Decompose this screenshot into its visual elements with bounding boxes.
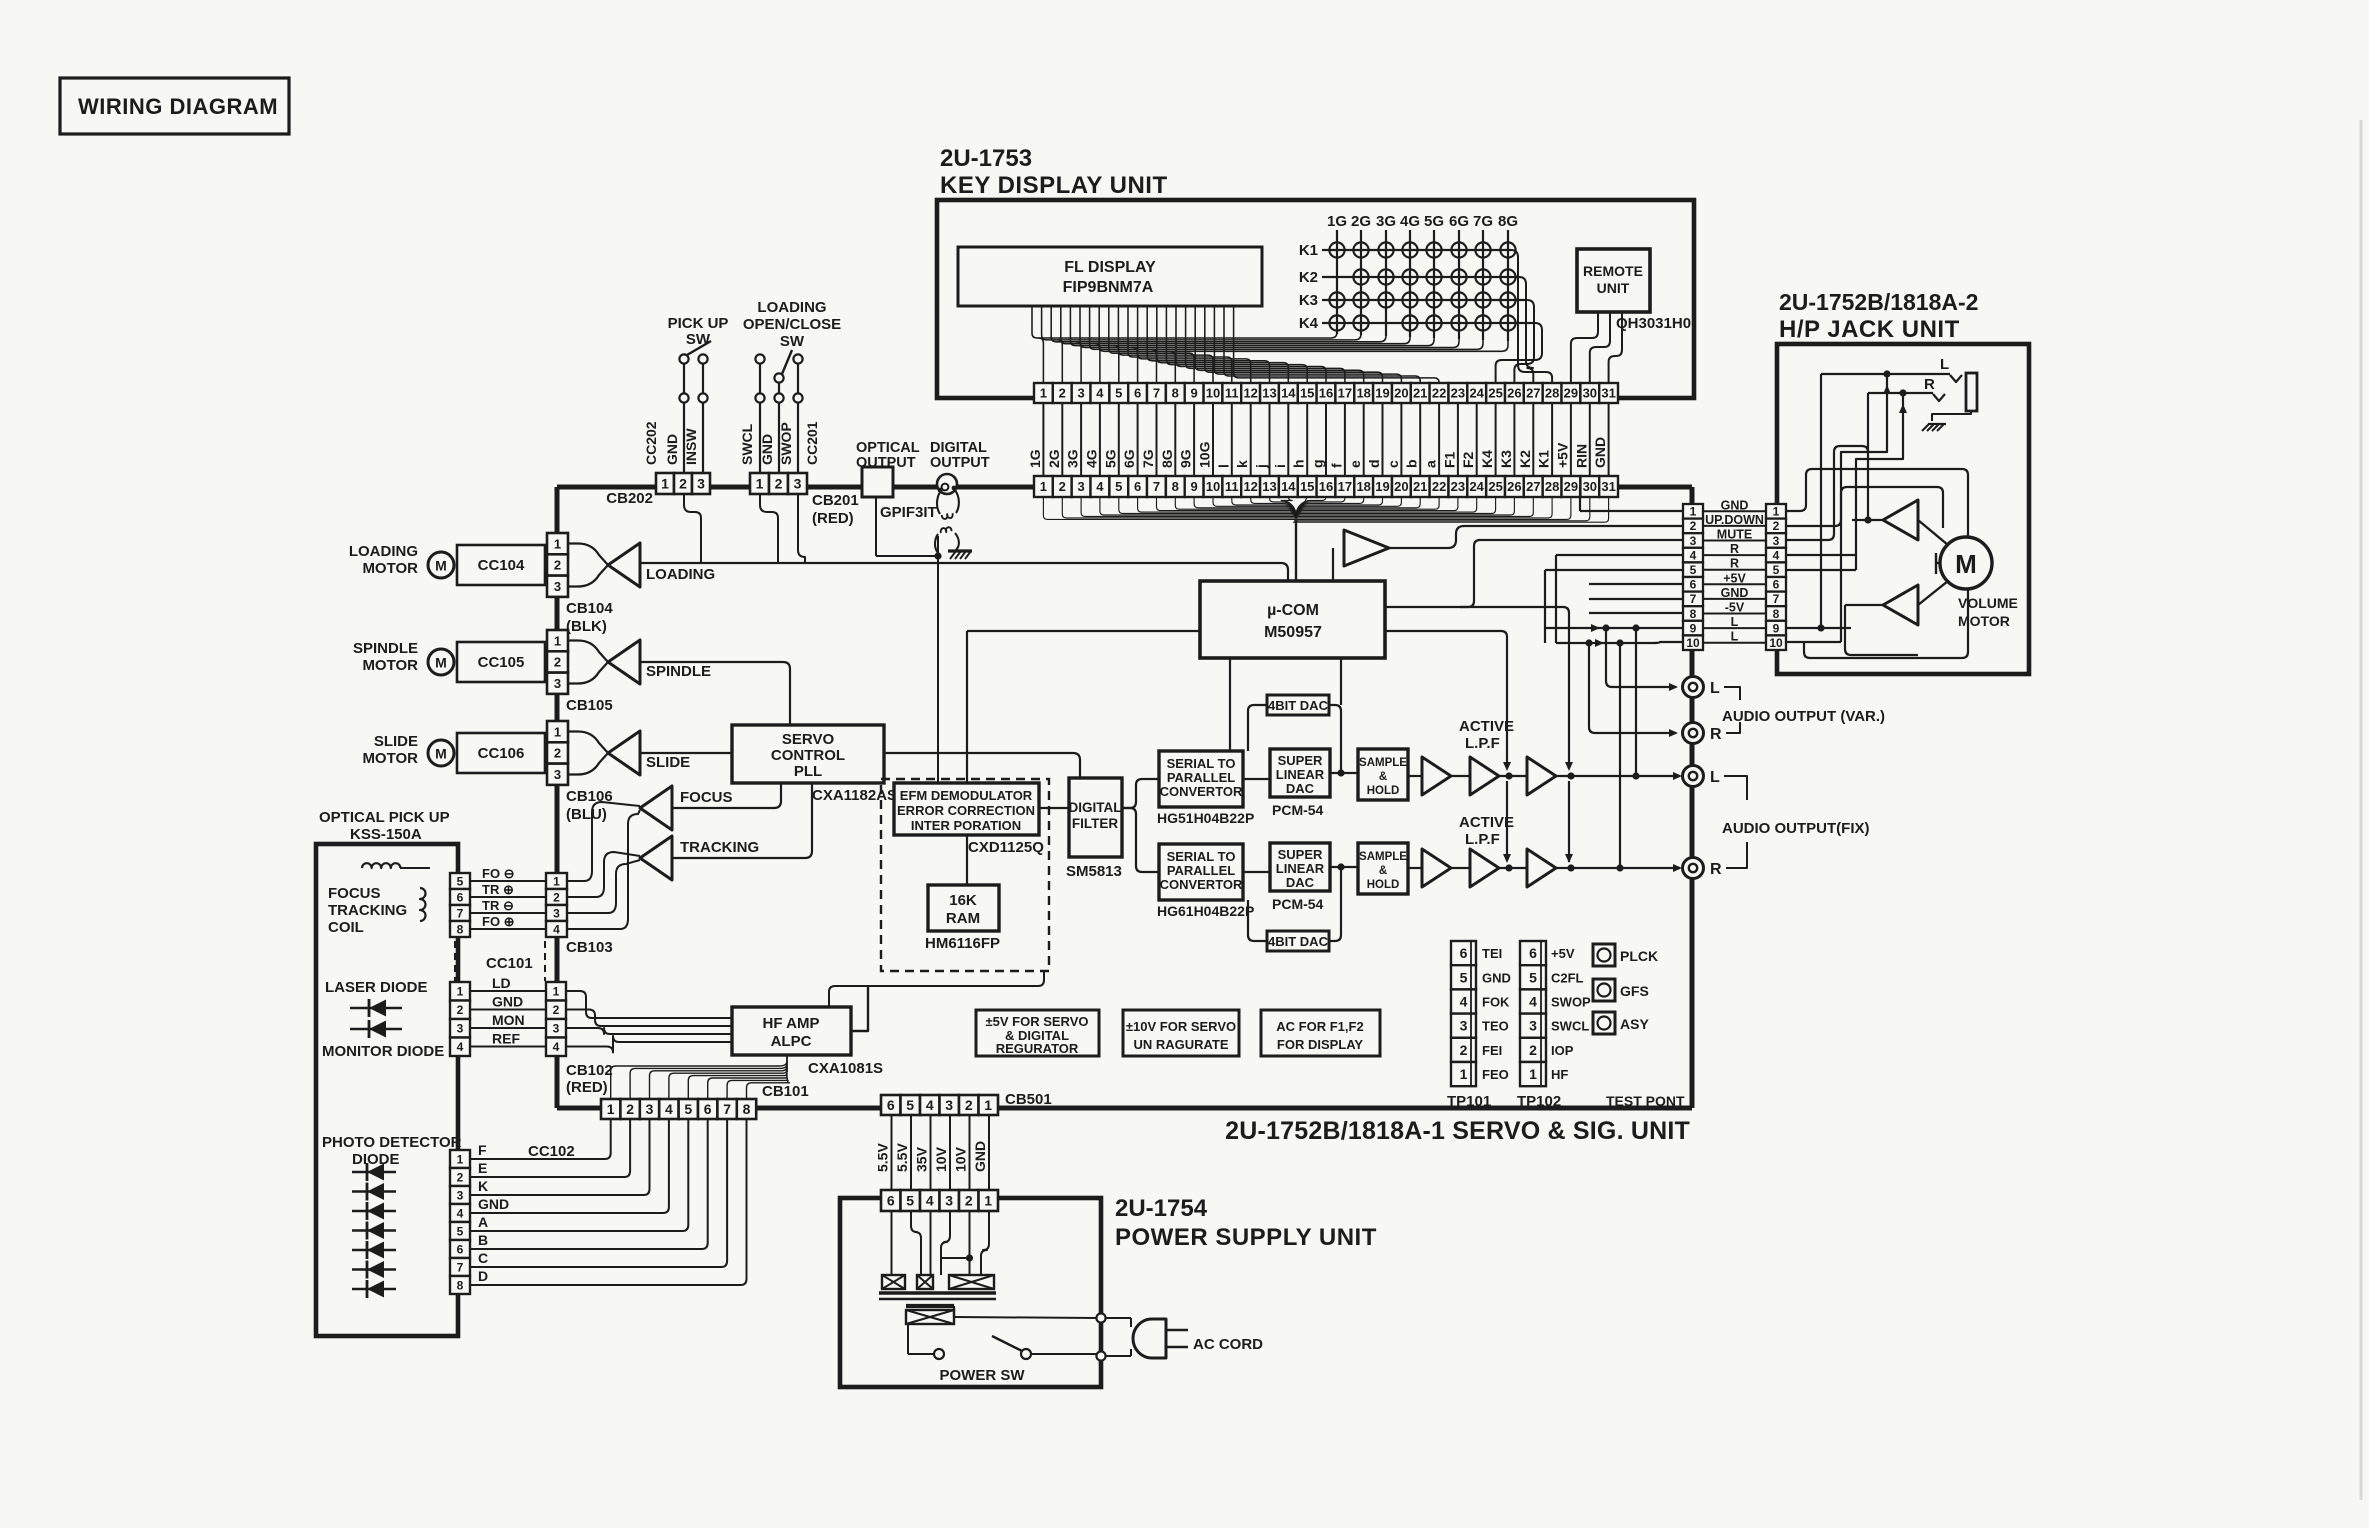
svg-text:(RED): (RED) (566, 1079, 608, 1096)
svg-text:7: 7 (457, 906, 464, 920)
svg-text:M50957: M50957 (1264, 624, 1322, 641)
svg-text:8G: 8G (1498, 213, 1518, 230)
svg-text:(BLK): (BLK) (566, 618, 607, 635)
svg-text:±10V FOR SERVO: ±10V FOR SERVO (1126, 1019, 1236, 1034)
svg-text:KSS-150A: KSS-150A (350, 826, 422, 843)
wires CB102 to HF amp (566, 991, 732, 1018)
svg-text:7: 7 (1153, 386, 1160, 401)
wires u-COM bottom to dac chain (1229, 658, 1231, 751)
flex cable CC104 (457, 545, 545, 585)
svg-text:7G: 7G (1473, 213, 1493, 230)
svg-text:30: 30 (1583, 479, 1597, 494)
svg-text:M: M (1955, 549, 1977, 579)
svg-text:+5V: +5V (1551, 946, 1575, 961)
svg-text:GND: GND (1721, 498, 1749, 512)
svg-text:3: 3 (1460, 1018, 1468, 1034)
headphone ground symbol (1922, 424, 1929, 431)
optical digital ground wires (875, 497, 877, 556)
svg-text:ACTIVE: ACTIVE (1459, 814, 1514, 831)
16K RAM box HM6116FP (928, 885, 999, 931)
svg-text:31: 31 (1601, 479, 1615, 494)
svg-text:H/P JACK UNIT: H/P JACK UNIT (1779, 316, 1960, 343)
wire L audio to hp pin9 (1545, 627, 1683, 629)
HF amp ALPC box CXA1081S (732, 1007, 851, 1055)
svg-text:L: L (1710, 680, 1720, 697)
svg-text:UN RAGURATE: UN RAGURATE (1133, 1037, 1228, 1052)
connector CB104 (547, 533, 568, 554)
svg-text:SW: SW (780, 333, 805, 350)
svg-text:9: 9 (1773, 621, 1780, 635)
svg-text:GND: GND (478, 1196, 509, 1212)
svg-text:R: R (1730, 542, 1739, 556)
svg-text:M: M (435, 746, 447, 762)
photo detector connector pins 1-8 (450, 1150, 470, 1168)
svg-text:PLL: PLL (794, 763, 822, 780)
hp wire R to apex (1867, 393, 1869, 520)
svg-text:5: 5 (1690, 563, 1697, 577)
wire hp pin5 R (1545, 569, 1683, 571)
svg-text:K4: K4 (1299, 315, 1319, 332)
svg-text:1: 1 (661, 476, 669, 492)
connector CB105 (547, 630, 568, 651)
svg-text:6: 6 (1134, 386, 1141, 401)
svg-text:1: 1 (607, 1101, 615, 1117)
svg-text:3: 3 (794, 476, 802, 492)
svg-text:UNIT: UNIT (1597, 280, 1630, 296)
wire L fix to pin line (1635, 628, 1637, 776)
svg-text:14: 14 (1281, 386, 1296, 401)
svg-text:22: 22 (1432, 479, 1446, 494)
svg-text:CB202: CB202 (606, 490, 653, 507)
svg-text:4: 4 (1529, 994, 1537, 1010)
svg-text:WIRING DIAGRAM: WIRING DIAGRAM (78, 94, 278, 119)
loading open/close switch contacts (755, 393, 764, 402)
svg-text:K2: K2 (1299, 269, 1318, 286)
wires linking row1 to row2 (1042, 403, 1044, 476)
svg-text:ERROR CORRECTION: ERROR CORRECTION (897, 803, 1035, 818)
svg-text:LOADING: LOADING (757, 299, 826, 316)
svg-text:HF AMP: HF AMP (763, 1015, 820, 1032)
svg-text:SWOP: SWOP (1551, 995, 1591, 1010)
transformer ground (948, 549, 972, 552)
hp amp outputs to motor (1918, 520, 1948, 545)
svg-text:TP101: TP101 (1447, 1093, 1491, 1110)
svg-text:21: 21 (1413, 479, 1427, 494)
svg-text:3: 3 (646, 1101, 654, 1117)
hp motor bottom loop (1804, 589, 1968, 658)
svg-text:SLIDE: SLIDE (374, 733, 418, 750)
svg-text:FO ⊕: FO ⊕ (482, 914, 515, 929)
svg-text:21: 21 (1413, 386, 1427, 401)
svg-text:3: 3 (553, 906, 560, 920)
svg-text:L: L (1731, 630, 1739, 644)
wire serial to dac top (1243, 778, 1270, 780)
svg-text:D: D (478, 1268, 488, 1284)
test point ASY (1593, 1012, 1615, 1034)
hp L feed staircase (1841, 374, 1887, 642)
svg-text:GND: GND (1721, 586, 1749, 600)
hp amp feed wires (1787, 487, 1943, 526)
wire loading amp to u-COM (640, 563, 1288, 581)
svg-text:TR ⊖: TR ⊖ (482, 898, 514, 913)
svg-text:KEY DISPLAY UNIT: KEY DISPLAY UNIT (940, 172, 1168, 199)
svg-text:c: c (1385, 460, 1401, 468)
node power junction (966, 1254, 973, 1261)
svg-text:PLCK: PLCK (1620, 948, 1658, 964)
audio output jacks (1683, 677, 1704, 698)
svg-text:HG51H04B22P: HG51H04B22P (1157, 810, 1254, 826)
svg-text:3: 3 (554, 676, 561, 691)
svg-text:IOP: IOP (1551, 1043, 1574, 1058)
svg-text:8: 8 (1690, 607, 1697, 621)
servo control PLL box CXA1182AS (732, 725, 884, 783)
svg-text:24: 24 (1469, 479, 1484, 494)
svg-text:SERVO: SERVO (782, 731, 835, 748)
hp connector left pins 1-10 (1683, 504, 1703, 519)
key display connector row 1 pins 1-31 (1034, 383, 1053, 403)
transformer windings (882, 1275, 905, 1289)
svg-text:4: 4 (926, 1097, 934, 1113)
svg-text:a: a (1423, 460, 1439, 468)
wire ground to EFM (937, 556, 939, 783)
svg-text:CC202: CC202 (643, 421, 659, 465)
svg-text:2G: 2G (1351, 213, 1371, 230)
note box 10V for servo (1123, 1010, 1239, 1056)
wires below CB202 CB201 to loading line (684, 494, 701, 563)
svg-text:DIGITAL: DIGITAL (1069, 800, 1122, 815)
svg-text:ALPC: ALPC (771, 1033, 812, 1050)
svg-text:1: 1 (984, 1193, 992, 1209)
power switch (934, 1349, 944, 1359)
test point TP101 (1451, 941, 1476, 965)
svg-text:SUPER: SUPER (1278, 847, 1323, 862)
wire EFM to RAM (966, 835, 968, 885)
wire 4bit dac top to dac line (1329, 705, 1341, 773)
wire dac to sample hold top (1330, 772, 1358, 774)
svg-text:29: 29 (1564, 479, 1578, 494)
svg-text:6: 6 (1690, 578, 1697, 592)
4bit dac top box (1267, 695, 1329, 715)
svg-text:4: 4 (1460, 994, 1468, 1010)
svg-text:FOCUS: FOCUS (680, 789, 733, 806)
svg-text:1G: 1G (1327, 213, 1347, 230)
wire serial top to 4bit dac (1248, 705, 1267, 751)
svg-text:SAMPLE: SAMPLE (1359, 851, 1407, 863)
svg-text:13: 13 (1262, 479, 1276, 494)
svg-text:LINEAR: LINEAR (1276, 861, 1325, 876)
svg-text:3: 3 (945, 1193, 953, 1209)
hp volume amp bottom (1883, 585, 1918, 625)
svg-text:22: 22 (1432, 386, 1446, 401)
wire HF amp top to EFM region (829, 971, 1044, 1007)
svg-text:CB501: CB501 (1005, 1091, 1052, 1108)
svg-text:SWCL: SWCL (739, 423, 755, 465)
svg-text:i: i (1272, 464, 1288, 468)
svg-text:20: 20 (1394, 479, 1408, 494)
key row wires K1-K4 to pins 25-28 (1511, 250, 1552, 383)
svg-text:4G: 4G (1083, 449, 1099, 468)
key switch circles (1329, 242, 1344, 257)
svg-text:(RED): (RED) (812, 510, 854, 527)
svg-text:20: 20 (1394, 386, 1408, 401)
svg-text:3: 3 (1077, 479, 1084, 494)
svg-text:4: 4 (553, 922, 560, 936)
svg-text:AC FOR F1,F2: AC FOR F1,F2 (1276, 1019, 1363, 1034)
svg-text:HF: HF (1551, 1067, 1568, 1082)
servo & sig unit right edge wire (1690, 487, 1695, 1108)
svg-text:1: 1 (1040, 386, 1047, 401)
svg-text:MOTOR: MOTOR (362, 657, 418, 674)
svg-text:MOTOR: MOTOR (1958, 613, 2010, 629)
svg-text:27: 27 (1526, 479, 1540, 494)
audio chain bottom amplifiers (1408, 867, 1422, 869)
svg-text:DAC: DAC (1286, 875, 1315, 890)
transformer primary (906, 1304, 954, 1308)
wire serial bottom to 4bit dac (1248, 900, 1267, 941)
svg-text:35V: 35V (914, 1146, 930, 1172)
svg-text:2: 2 (554, 558, 561, 573)
svg-text:GND: GND (1592, 437, 1608, 468)
power supply connector (881, 1190, 901, 1211)
digital output transformer primary (937, 492, 940, 514)
svg-text:E: E (478, 1160, 487, 1176)
svg-text:25: 25 (1488, 386, 1502, 401)
wires digital filter to serial converters (1122, 779, 1159, 808)
svg-text:ASY: ASY (1620, 1016, 1649, 1032)
headphone jack ground wire (1932, 411, 1971, 421)
svg-text:COIL: COIL (328, 919, 364, 936)
loading open/close switch blade (782, 350, 792, 374)
svg-text:1: 1 (1040, 479, 1047, 494)
svg-text:4: 4 (553, 1040, 560, 1054)
svg-text:CONVERTOR: CONVERTOR (1160, 877, 1243, 892)
svg-text:d: d (1366, 459, 1382, 468)
svg-text:3: 3 (1077, 386, 1084, 401)
photo detector wires F E K GND A B C D to CB101 (470, 1119, 611, 1159)
svg-text:PARALLEL: PARALLEL (1167, 770, 1235, 785)
svg-text:13: 13 (1262, 386, 1276, 401)
svg-text:2: 2 (457, 1170, 464, 1184)
svg-text:LASER DIODE: LASER DIODE (325, 979, 428, 996)
svg-text:K3: K3 (1299, 292, 1318, 309)
svg-text:UP.DOWN: UP.DOWN (1705, 513, 1764, 527)
EFM demodulator box (894, 783, 1039, 835)
svg-text:4G: 4G (1400, 213, 1420, 230)
svg-text:+5V: +5V (1554, 442, 1570, 468)
hp jack unit box (1777, 344, 2029, 674)
svg-text:&: & (1379, 865, 1387, 877)
svg-text:DIODE: DIODE (352, 1151, 400, 1168)
svg-text:19: 19 (1375, 386, 1389, 401)
svg-text:2: 2 (554, 655, 561, 670)
svg-text:OPEN/CLOSE: OPEN/CLOSE (743, 316, 841, 333)
flex cable CC106 (457, 733, 545, 773)
key matrix column wires (1336, 230, 1338, 334)
svg-text:FOK: FOK (1482, 995, 1510, 1010)
svg-text:OPTICAL PICK UP: OPTICAL PICK UP (319, 809, 450, 826)
svg-text:6: 6 (457, 890, 464, 904)
svg-text:7G: 7G (1140, 449, 1156, 468)
svg-text:INSW: INSW (683, 428, 699, 465)
svg-text:SERIAL TO: SERIAL TO (1167, 756, 1236, 771)
connector CB106 (547, 721, 568, 742)
svg-text:6: 6 (1134, 479, 1141, 494)
svg-text:5: 5 (906, 1097, 914, 1113)
svg-text:OUTPUT: OUTPUT (930, 455, 990, 471)
loading open/close switch wires (759, 403, 761, 473)
wire spindle amp to servo pll (640, 662, 790, 725)
svg-text:CB104: CB104 (566, 600, 613, 617)
svg-text:CC102: CC102 (528, 1143, 575, 1160)
svg-text:b: b (1404, 459, 1420, 468)
svg-text:2: 2 (1773, 519, 1780, 533)
svg-text:8: 8 (1773, 607, 1780, 621)
svg-text:TRACKING: TRACKING (328, 902, 407, 919)
svg-text:6: 6 (704, 1101, 712, 1117)
svg-text:1: 1 (984, 1097, 992, 1113)
pick up switch wires (683, 393, 685, 403)
svg-text:B: B (478, 1232, 488, 1248)
svg-text:VOLUME: VOLUME (1958, 595, 2018, 611)
connector CB201 (750, 473, 769, 494)
svg-text:18: 18 (1356, 386, 1370, 401)
svg-text:7: 7 (1690, 592, 1697, 606)
connector row 2 pins 1-31 on servo unit (1034, 476, 1053, 497)
svg-text:10V: 10V (953, 1146, 969, 1172)
pick up switch blade (687, 341, 711, 355)
svg-text:3G: 3G (1065, 449, 1081, 468)
svg-text:M: M (435, 558, 447, 574)
svg-text:10: 10 (1206, 479, 1220, 494)
svg-text:TRACKING: TRACKING (680, 839, 759, 856)
servo & sig unit left edge wire (555, 487, 560, 1108)
svg-text:CB103: CB103 (566, 939, 613, 956)
headphone jack chevrons (1950, 375, 1962, 382)
svg-text:R: R (1710, 861, 1722, 878)
volume motor M (1940, 537, 1992, 589)
svg-text:CB101: CB101 (762, 1083, 809, 1100)
note box 5V for servo (976, 1010, 1099, 1056)
hp mute wire pin3 (1787, 446, 1868, 540)
svg-text:5: 5 (1115, 386, 1122, 401)
svg-text:PARALLEL: PARALLEL (1167, 863, 1235, 878)
svg-text:1: 1 (1690, 505, 1697, 519)
svg-text:1: 1 (554, 633, 561, 648)
wire L var tap (1606, 628, 1676, 687)
svg-text:(BLU): (BLU) (566, 806, 607, 823)
amplifier SLIDE (608, 731, 640, 775)
svg-text:2: 2 (553, 890, 560, 904)
svg-text:CB102: CB102 (566, 1062, 613, 1079)
title box WIRING DIAGRAM (60, 78, 289, 134)
svg-text:GND: GND (759, 434, 775, 465)
wires CB103 to focus tracking amps (568, 802, 640, 881)
svg-text:EFM DEMODULATOR: EFM DEMODULATOR (900, 788, 1033, 803)
svg-text:FILTER: FILTER (1072, 816, 1118, 831)
connector CB101 (601, 1099, 620, 1119)
svg-text:6: 6 (887, 1193, 895, 1209)
svg-text:9: 9 (1190, 386, 1197, 401)
transformer core (879, 1291, 996, 1294)
audio output fix bracket (1724, 776, 1747, 800)
digital output transformer secondary (935, 534, 938, 556)
svg-text:1: 1 (554, 724, 561, 739)
svg-text:4: 4 (665, 1101, 673, 1117)
svg-text:SAMPLE: SAMPLE (1359, 757, 1407, 769)
svg-text:2: 2 (1059, 479, 1066, 494)
key display unit box 2U-1753 (937, 200, 1694, 398)
svg-text:3: 3 (554, 579, 561, 594)
ac junction circles (1096, 1313, 1105, 1322)
svg-text:TEI: TEI (1482, 946, 1502, 961)
mute wire A from u-COM (1385, 607, 1569, 766)
svg-text:5: 5 (1115, 479, 1122, 494)
svg-text:K1: K1 (1536, 450, 1552, 468)
bundle wire to u-COM (1295, 519, 1297, 581)
svg-text:R: R (1924, 376, 1935, 393)
svg-text:25: 25 (1488, 479, 1502, 494)
svg-text:CC105: CC105 (478, 654, 525, 671)
connector CB102 (546, 982, 566, 1001)
svg-text:SM5813: SM5813 (1066, 863, 1122, 880)
svg-text:2: 2 (679, 476, 687, 492)
svg-text:REMOTE: REMOTE (1583, 263, 1643, 279)
svg-text:3G: 3G (1376, 213, 1396, 230)
svg-text:k: k (1234, 460, 1250, 468)
svg-text:17: 17 (1338, 479, 1352, 494)
svg-text:SWOP: SWOP (778, 422, 794, 465)
svg-text:GND: GND (972, 1141, 988, 1172)
test point GFS (1593, 979, 1615, 1001)
svg-text:K1: K1 (1299, 242, 1318, 259)
monitor diode D2 (350, 1028, 402, 1030)
wire tracking amp to pll (672, 783, 812, 858)
svg-text:10G: 10G (1197, 441, 1213, 468)
wire hp pin1 gnd to bus (1580, 510, 1683, 512)
svg-text:FOR DISPLAY: FOR DISPLAY (1277, 1037, 1364, 1052)
pickup coil connector pins 5-8 (450, 873, 470, 889)
svg-text:2U-1752B/1818A-2: 2U-1752B/1818A-2 (1779, 289, 1978, 315)
svg-text:FO ⊖: FO ⊖ (482, 866, 515, 881)
amplifier FOCUS (640, 786, 672, 830)
svg-text:GPIF3IT: GPIF3IT (880, 504, 937, 521)
svg-text:4: 4 (1690, 548, 1697, 562)
svg-text:5: 5 (684, 1101, 692, 1117)
svg-text:4: 4 (926, 1193, 934, 1209)
svg-text:MUTE: MUTE (1717, 528, 1752, 542)
key matrix row wires (1322, 249, 1511, 251)
svg-text:4: 4 (1773, 548, 1780, 562)
svg-text:PCM-54: PCM-54 (1272, 896, 1324, 912)
svg-text:1: 1 (1529, 1066, 1537, 1082)
svg-text:2: 2 (1460, 1042, 1468, 1058)
svg-text:FL DISPLAY: FL DISPLAY (1064, 259, 1156, 276)
serial to parallel convertor top HG51H04B22P (1159, 751, 1243, 807)
note box AC for F1 F2 (1261, 1010, 1380, 1056)
svg-text:31: 31 (1601, 386, 1615, 401)
svg-text:2: 2 (457, 1003, 464, 1017)
svg-text:PCM-54: PCM-54 (1272, 802, 1324, 818)
svg-text:2U-1752B/1818A-1 SERVO & SIG.: 2U-1752B/1818A-1 SERVO & SIG. UNIT (1225, 1117, 1690, 1145)
svg-text:3: 3 (554, 767, 561, 782)
svg-text:8: 8 (457, 922, 464, 936)
connector CB202 (656, 473, 674, 494)
wires hp pins 6 7 8 (1589, 583, 1683, 585)
svg-text:AC CORD: AC CORD (1193, 1336, 1263, 1353)
wire 4bit dac bottom to dac line (1329, 867, 1341, 941)
svg-text:6: 6 (1460, 945, 1468, 961)
wire hp pin3 mute (1460, 540, 1683, 607)
